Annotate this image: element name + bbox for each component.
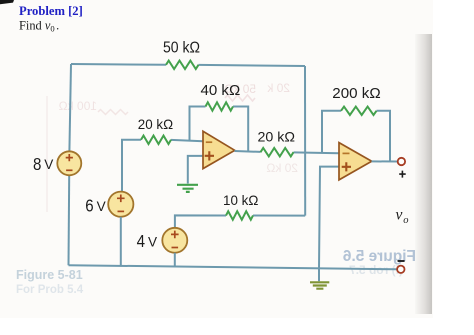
resistor R 20k middle xyxy=(261,148,294,156)
wire 40k feedback right vertical xyxy=(233,107,248,152)
V3 plus sign xyxy=(171,231,179,239)
wire top from 8V node to opamp2 minus node xyxy=(71,63,166,66)
svg-text:20 k: 20 k xyxy=(266,81,290,95)
svg-text:V: V xyxy=(97,199,106,214)
resistor R 200k xyxy=(341,107,377,115)
U2 plus mark xyxy=(342,162,351,171)
svg-text:For Prob 5.4: For Prob 5.4 xyxy=(16,284,84,296)
wire 40k feedback left vertical xyxy=(190,107,206,141)
svg-text:6: 6 xyxy=(85,195,94,215)
V1 minus sign xyxy=(66,169,72,171)
output terminal minus xyxy=(397,266,404,273)
resistor R 40k xyxy=(206,102,234,110)
output terminal plus xyxy=(398,158,405,165)
page edge shadow strip xyxy=(415,34,432,314)
svg-text:4: 4 xyxy=(137,231,146,251)
V2 minus sign xyxy=(118,210,125,212)
svg-text:20 kΩ: 20 kΩ xyxy=(258,129,296,144)
ghost bleed text mid xyxy=(266,161,298,175)
ghost resistor zigzag xyxy=(225,95,255,101)
U1 plus mark xyxy=(205,151,214,160)
voltage source V3 4V circle xyxy=(162,228,187,253)
terminal minus sign xyxy=(398,260,405,262)
wire below 6V source xyxy=(120,217,122,266)
svg-text:20 kΩ: 20 kΩ xyxy=(138,117,173,132)
svg-text:V: V xyxy=(44,157,53,172)
svg-text:8: 8 xyxy=(33,154,42,174)
V3 minus sign xyxy=(172,247,179,249)
wire below 4V source xyxy=(174,253,176,267)
scan artifact top-left corner xyxy=(0,0,14,4)
wire top right of 50k xyxy=(199,65,306,66)
op-amp U1 xyxy=(203,131,235,168)
wire opamp1 plus input to ground xyxy=(188,156,203,184)
ghost resistor zigzag left xyxy=(98,110,128,115)
resistor R 20k input xyxy=(141,136,171,144)
svg-text:V: V xyxy=(148,234,157,249)
svg-text:20 kΩ: 20 kΩ xyxy=(266,161,298,175)
wire 20k to opamp2 minus xyxy=(294,151,340,154)
wire bottom rail xyxy=(69,265,398,269)
wire 20k to opamp1 minus xyxy=(171,140,203,141)
op-amp U2 xyxy=(339,143,372,180)
svg-text:100 kΩ: 100 kΩ xyxy=(59,99,97,113)
wire 200k feedback left vertical xyxy=(322,111,341,153)
resistor R 10k xyxy=(226,211,253,219)
svg-text:Problem [2]: Problem [2] xyxy=(19,4,83,18)
svg-text:v: v xyxy=(396,207,403,224)
wire opamp2 output to terminal xyxy=(372,160,398,162)
svg-text:200 kΩ: 200 kΩ xyxy=(332,85,380,102)
ghost bleed text mirrored 02 xyxy=(266,81,290,95)
ground G1 xyxy=(177,185,198,192)
ground G2 xyxy=(310,282,329,288)
svg-text:Figure 5-81: Figure 5-81 xyxy=(16,268,83,282)
U2 minus mark xyxy=(343,152,350,154)
svg-text:50 kΩ: 50 kΩ xyxy=(163,40,200,57)
wire 4V riser to 10k xyxy=(175,215,226,228)
terminal plus sign xyxy=(399,171,406,178)
wire opamp2 plus input down to ground rail xyxy=(319,167,339,282)
wire 10k to summing vertical xyxy=(253,215,305,217)
U1 minus mark xyxy=(206,141,212,143)
ghost caption mirrored figure 5.6 right xyxy=(342,248,416,265)
resistor R 50k xyxy=(166,61,199,69)
ghost bleed line left xyxy=(46,96,48,212)
svg-text:40 kΩ: 40 kΩ xyxy=(201,82,241,99)
ghost bleed text 100k left xyxy=(59,99,97,113)
voltage source V1 8V circle xyxy=(57,151,81,175)
ghost caption mirrored second line xyxy=(349,263,403,277)
wire 6V riser to 20k input xyxy=(122,140,141,192)
V2 plus sign xyxy=(117,195,125,203)
svg-text:o: o xyxy=(403,215,408,226)
V1 plus sign xyxy=(66,154,73,161)
ghost bleed text mirrored 50k xyxy=(224,82,256,96)
wire 200k feedback right vertical xyxy=(377,111,391,162)
wire left vertical above 8V source xyxy=(69,64,71,151)
wire opamp1 output to 20k xyxy=(235,150,261,153)
svg-text:10 kΩ: 10 kΩ xyxy=(223,193,258,208)
wire summing node vertical xyxy=(304,66,306,216)
wire left vertical below 8V source xyxy=(68,175,71,265)
voltage source V2 6V circle xyxy=(108,192,133,217)
